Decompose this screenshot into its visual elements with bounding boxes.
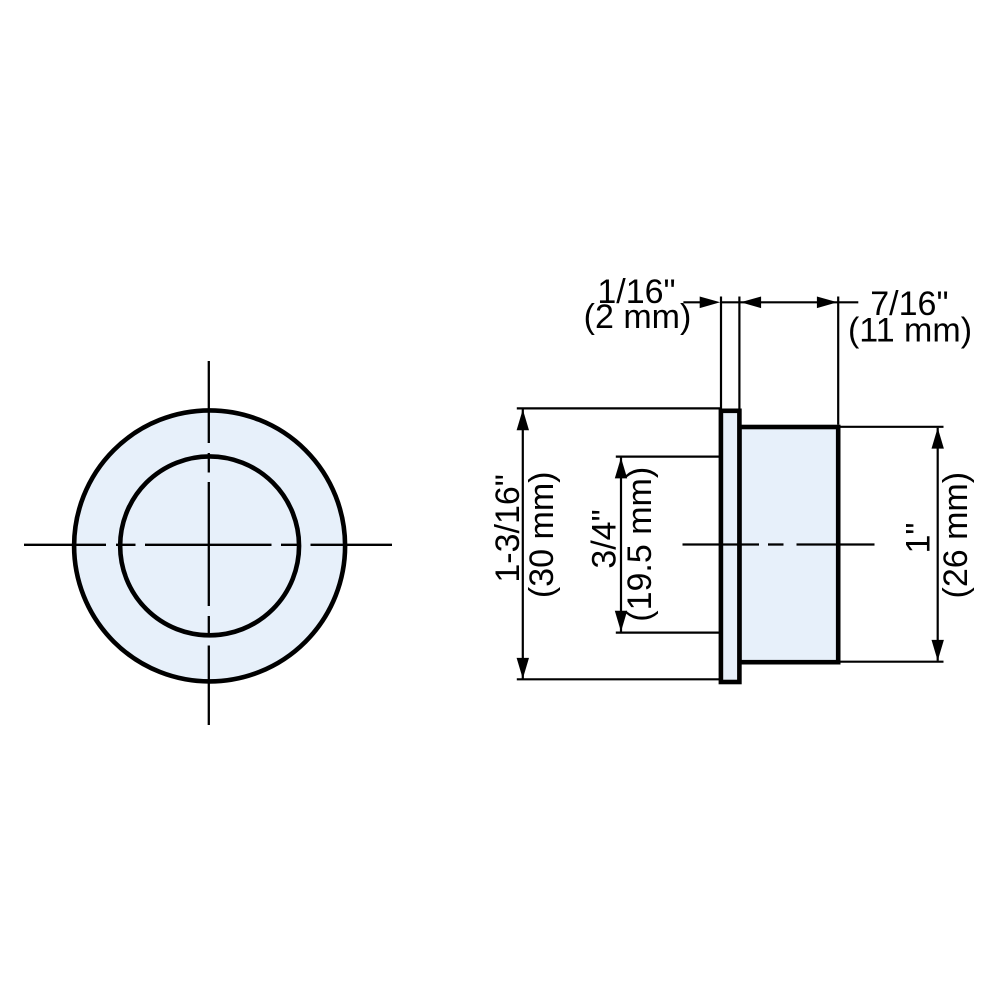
extension line: body top (1" dim) <box>841 426 944 428</box>
arrowhead up at flange top <box>517 409 529 430</box>
side view: cylindrical body <box>739 427 838 662</box>
svg-text:(26 mm): (26 mm) <box>937 472 975 599</box>
extension line: flange bottom (1-3/16" dim) <box>517 678 721 680</box>
svg-text:3/4": 3/4" <box>586 509 624 568</box>
svg-text:(30 mm): (30 mm) <box>523 472 561 599</box>
svg-text:(2 mm): (2 mm) <box>584 298 692 336</box>
arrowhead right-pointing at flange left edge <box>700 297 721 309</box>
extension line: hole bottom (3/4" dim) <box>616 631 721 633</box>
arrowhead up at hole top <box>615 458 627 479</box>
dimension line 1/16" leader (left of flange) <box>683 301 701 303</box>
dimension line 3/4" vertical <box>620 458 622 632</box>
dimension line 1" vertical <box>937 428 939 661</box>
arrowhead down at body bottom <box>932 640 944 661</box>
dimension line 1-3/16" vertical <box>522 409 524 679</box>
front view vertical centerline <box>208 361 210 725</box>
extension line: flange right edge (top dim) <box>738 297 740 409</box>
extension line: body right edge (top dim) <box>837 297 839 425</box>
front view horizontal centerline <box>24 544 392 546</box>
arrowhead down at flange bottom <box>517 658 529 679</box>
extension line: flange left edge (top dim) <box>720 297 722 409</box>
extension line: flange top (1-3/16" dim) <box>517 407 721 409</box>
dimension line 7/16" (flange right to body right) <box>721 301 838 303</box>
arrowhead right-pointing at body right edge <box>817 297 838 309</box>
svg-text:1-3/16": 1-3/16" <box>489 474 527 582</box>
svg-text:1": 1" <box>900 523 938 554</box>
svg-text:(11 mm): (11 mm) <box>848 312 972 350</box>
extension line: body bottom (1" dim) <box>841 661 944 663</box>
arrowhead up at body top <box>932 428 944 449</box>
front view: inner circle (recess hole) <box>120 456 299 635</box>
side view: flange plate <box>721 411 740 682</box>
arrowhead down at hole bottom <box>615 611 627 632</box>
arrowhead left-pointing at flange right edge <box>741 297 762 309</box>
side view centerline <box>683 543 875 545</box>
extension line: hole top (3/4" dim) <box>616 456 721 458</box>
front view: outer circle (flange face) <box>74 410 345 681</box>
svg-text:(19.5 mm): (19.5 mm) <box>621 467 659 622</box>
dimension line tail to 7/16" label <box>838 301 858 303</box>
